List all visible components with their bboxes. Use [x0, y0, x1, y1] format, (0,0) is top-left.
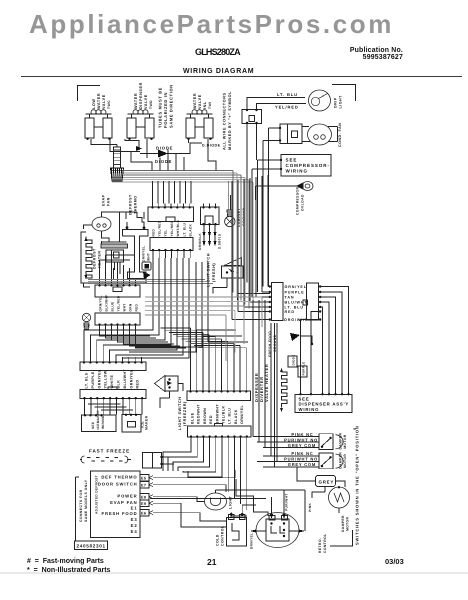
svg-text:E4: E4 [131, 529, 138, 534]
svg-text:SAME DIRECTION: SAME DIRECTION [169, 84, 174, 128]
svg-text:VALVE: VALVE [102, 94, 106, 109]
svg-text:WHT: WHT [122, 303, 126, 311]
svg-text:POLARIZED IN: POLARIZED IN [163, 92, 168, 128]
svg-text:BLU/WHT: BLU/WHT [123, 368, 127, 388]
svg-text:DISPENSER: DISPENSER [139, 82, 143, 109]
svg-text:COMPRESSOR: COMPRESSOR [296, 187, 300, 215]
svg-text:TWC: TWC [107, 100, 111, 109]
svg-text:BRN/WHT: BRN/WHT [215, 404, 219, 424]
svg-text:PINK NC: PINK NC [291, 432, 313, 437]
svg-text:BLK/WHT: BLK/WHT [104, 295, 108, 312]
svg-text:LT. BLU: LT. BLU [277, 92, 298, 97]
svg-text:RED: RED [209, 415, 213, 424]
svg-text:PINK: PINK [308, 502, 312, 512]
svg-text:DOOR SWITCH: DOOR SWITCH [98, 482, 138, 487]
svg-text:FAN: FAN [107, 197, 111, 206]
svg-text:GREY COM: GREY COM [288, 443, 316, 448]
svg-text:POWER: POWER [117, 494, 137, 499]
svg-text:ORN/BLK: ORN/BLK [198, 233, 202, 250]
svg-text:PUR/WHT NO: PUR/WHT NO [284, 457, 318, 462]
svg-text:VALVE: VALVE [198, 94, 202, 109]
svg-text:(FRESH): (FRESH) [212, 263, 216, 282]
svg-text:PUR/WHT: PUR/WHT [285, 493, 289, 511]
svg-text:RETRO.: RETRO. [318, 538, 322, 553]
svg-text:RED/WHT: RED/WHT [197, 404, 201, 424]
svg-text:ORG/WHT: ORG/WHT [284, 318, 308, 322]
svg-text:DAMPER: DAMPER [339, 452, 343, 469]
svg-text:LT. BLU: LT. BLU [228, 408, 232, 424]
svg-text:WIRING: WIRING [286, 169, 308, 174]
svg-text:BLUE: BLUE [191, 412, 195, 424]
svg-text:TAN: TAN [285, 296, 295, 300]
svg-text:SAME MODELS ONLY: SAME MODELS ONLY [84, 479, 88, 522]
svg-text:LT. BLU: LT. BLU [285, 306, 304, 310]
svg-text:E9: E9 [141, 502, 146, 506]
svg-text:ICEMAKER: ICEMAKER [96, 410, 100, 430]
svg-text:DIODE: DIODE [155, 159, 172, 164]
svg-text:(FREEZER): (FREEZER) [183, 401, 187, 426]
svg-text:YEL/RED: YEL/RED [116, 295, 120, 311]
svg-text:DEFROST: DEFROST [93, 248, 97, 269]
svg-text:LIGHT: LIGHT [339, 95, 343, 109]
svg-text:E3: E3 [131, 517, 138, 522]
svg-text:FRESH FOOD: FRESH FOOD [102, 511, 138, 516]
svg-text:COND. FAN: COND. FAN [338, 123, 342, 147]
svg-text:E5: E5 [141, 477, 146, 481]
svg-text:BLACK: BLACK [234, 409, 238, 424]
svg-text:CONTROL: CONTROL [221, 525, 225, 546]
svg-text:D.9B01S: D.9B01S [218, 234, 222, 249]
svg-text:DEF THERMO: DEF THERMO [101, 475, 137, 480]
svg-text:MOTOR: MOTOR [346, 516, 350, 531]
svg-text:WIRING: WIRING [299, 407, 320, 412]
svg-text:MOTOR: MOTOR [343, 454, 347, 469]
svg-text:YEL/RED: YEL/RED [275, 105, 299, 110]
svg-text:WATER: WATER [134, 93, 138, 109]
svg-text:PURPLE: PURPLE [302, 362, 306, 376]
svg-text:RED: RED [136, 380, 140, 389]
svg-text:GROUND: GROUND [273, 334, 277, 352]
svg-text:ALL WIRE CONNECTORS: ALL WIRE CONNECTORS [223, 92, 227, 150]
svg-text:GRN/YEL: GRN/YEL [142, 246, 146, 262]
svg-text:BLUE: BLUE [110, 302, 114, 312]
svg-text:WHT/BLK: WHT/BLK [176, 219, 180, 236]
svg-text:CONNECTS FOR: CONNECTS FOR [79, 489, 83, 522]
svg-text:COLD: COLD [216, 534, 220, 546]
svg-text:MARKED BY "+" SYMBOL: MARKED BY "+" SYMBOL [228, 91, 232, 150]
svg-text:240582301: 240582301 [77, 544, 106, 549]
svg-text:DAMPER: DAMPER [341, 515, 345, 532]
svg-text:GREY: GREY [319, 480, 335, 485]
svg-text:GREY COM: GREY COM [288, 462, 316, 467]
svg-text:WATER: WATER [193, 93, 197, 109]
svg-text:WHITE: WHITE [110, 375, 114, 389]
svg-text:LIGHT SWITCH: LIGHT SWITCH [178, 397, 182, 430]
svg-text:CONTROL: CONTROL [323, 533, 327, 553]
svg-text:EVAP: EVAP [102, 194, 106, 206]
svg-text:BROWN: BROWN [203, 408, 207, 424]
svg-text:GRN/YEL: GRN/YEL [98, 295, 102, 311]
svg-text:PINK NC: PINK NC [291, 451, 313, 456]
svg-text:BLU/WHT: BLU/WHT [285, 301, 308, 305]
svg-text:PURPLE: PURPLE [91, 371, 95, 388]
svg-text:WIRING: WIRING [101, 415, 105, 429]
svg-text:E7: E7 [141, 484, 146, 488]
svg-text:RED: RED [134, 303, 138, 311]
svg-text:THERMO: THERMO [134, 195, 138, 214]
svg-text:ORN/YEL: ORN/YEL [97, 369, 101, 388]
svg-text:PURPLE: PURPLE [285, 291, 305, 295]
svg-text:COMPRESSOR-: COMPRESSOR- [286, 163, 330, 168]
svg-text:YEL/RED: YEL/RED [158, 220, 162, 236]
svg-text:E1: E1 [131, 506, 138, 511]
svg-text:YELLOW: YELLOW [104, 370, 108, 388]
svg-text:SEE: SEE [91, 422, 95, 429]
svg-text:LIGHT: LIGHT [229, 495, 233, 509]
svg-text:OVLOAD: OVLOAD [301, 194, 305, 211]
svg-text:DRIP: DRIP [334, 97, 338, 108]
svg-text:ORN/YEL: ORN/YEL [285, 285, 307, 289]
svg-text:MOTOR: MOTOR [343, 434, 347, 449]
svg-text:YEL/BLK: YEL/BLK [222, 405, 226, 424]
svg-text:TWD: TWD [149, 100, 153, 109]
svg-text:GRN/YEL: GRN/YEL [129, 369, 133, 388]
svg-text:SWITCHES SHOWN IN THE "OPEN" P: SWITCHES SHOWN IN THE "OPEN" POSITION [355, 425, 360, 545]
svg-text:RED: RED [151, 229, 155, 237]
svg-text:INL: INL [203, 101, 207, 109]
svg-text:DEFROST: DEFROST [129, 194, 133, 215]
svg-text:LT. BLU: LT. BLU [182, 222, 186, 236]
svg-text:E6: E6 [141, 512, 146, 516]
svg-text:FAST FREEZE: FAST FREEZE [89, 449, 130, 454]
svg-text:TWI: TWI [208, 102, 212, 109]
svg-text:PUR/WHT NO: PUR/WHT NO [284, 437, 318, 442]
svg-text:SEE: SEE [286, 158, 298, 163]
svg-text:WHT: WHT [147, 253, 151, 261]
svg-text:LOW: LOW [92, 98, 96, 109]
svg-text:LT. BLU: LT. BLU [85, 372, 89, 388]
svg-text:E2: E2 [131, 523, 138, 528]
svg-text:VALVE: VALVE [144, 94, 148, 109]
svg-text:RED: RED [285, 310, 295, 314]
svg-text:YEL: YEL [164, 229, 168, 236]
svg-text:MAKER: MAKER [145, 415, 149, 430]
svg-text:EVAP FAN: EVAP FAN [110, 500, 137, 505]
svg-text:ORN/YEL: ORN/YEL [240, 405, 244, 424]
svg-text:ORN: ORN [128, 303, 132, 311]
svg-text:ADJUSTED DEFROST: ADJUSTED DEFROST [95, 475, 99, 514]
svg-text:DAMPER: DAMPER [339, 433, 343, 450]
svg-text:YEL/RED: YEL/RED [170, 220, 174, 236]
svg-text:BRN/YEL: BRN/YEL [250, 533, 254, 549]
svg-text:E8: E8 [141, 496, 146, 500]
svg-text:BLACK: BLACK [189, 224, 193, 237]
svg-text:WATER: WATER [97, 93, 101, 109]
svg-text:TUBES MUST BE: TUBES MUST BE [158, 87, 163, 128]
svg-text:D.DIODE: D.DIODE [202, 144, 221, 148]
svg-text:DIODE: DIODE [292, 354, 296, 365]
